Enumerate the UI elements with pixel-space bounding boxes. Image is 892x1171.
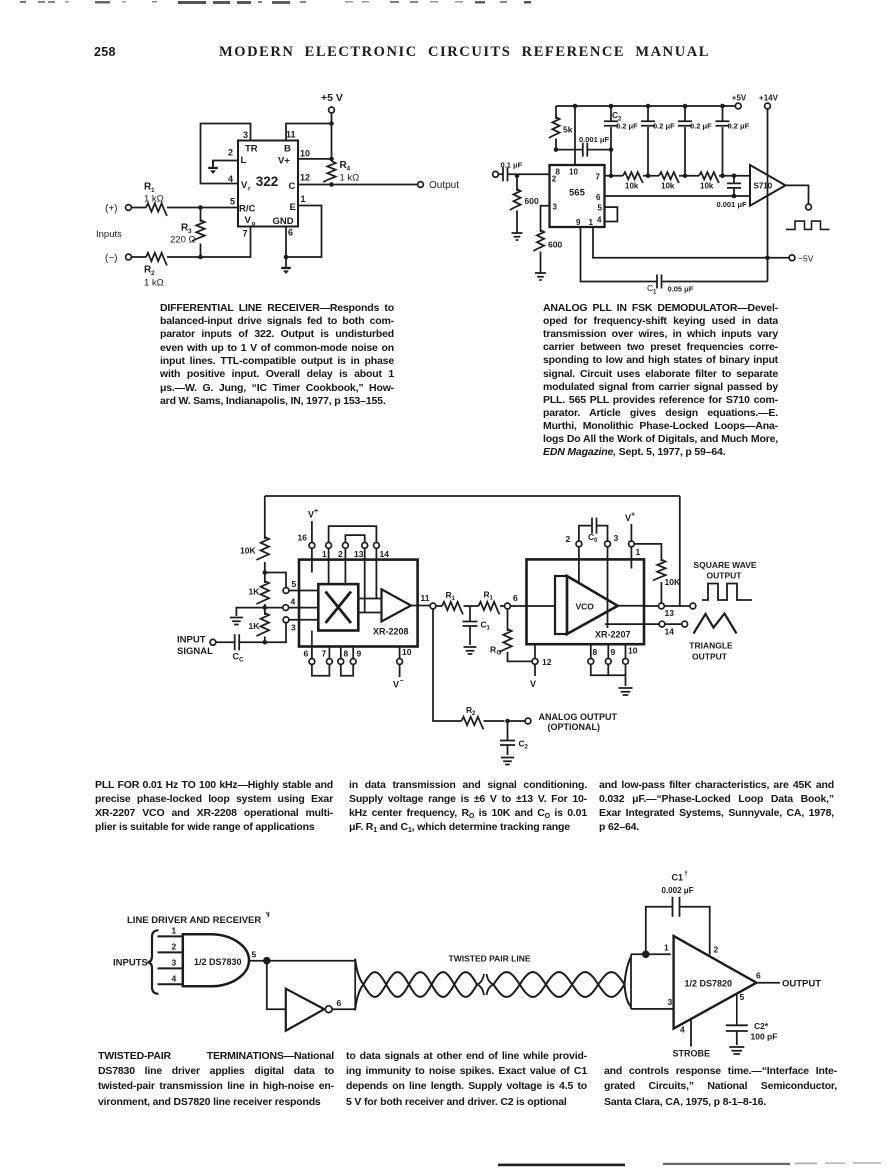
svg-text:2: 2 (172, 941, 177, 951)
svg-text:(OPTIONAL): (OPTIONAL) (548, 722, 601, 732)
svg-text:INPUT: INPUT (177, 635, 206, 646)
svg-text:+5V: +5V (732, 94, 747, 103)
svg-text:0.001 μF: 0.001 μF (717, 200, 747, 209)
svg-text:+14V: +14V (759, 94, 779, 103)
svg-text:8: 8 (344, 649, 349, 659)
svg-text:2: 2 (151, 270, 155, 277)
svg-text:3: 3 (614, 533, 619, 543)
svg-text:S710: S710 (754, 182, 773, 191)
svg-text:STROBE: STROBE (673, 1049, 711, 1059)
svg-text:10: 10 (628, 646, 638, 656)
svg-text:16: 16 (298, 533, 308, 543)
svg-text:1: 1 (653, 290, 657, 296)
svg-text:TR: TR (245, 144, 258, 155)
svg-text:0.2 μF: 0.2 μF (728, 122, 750, 131)
svg-text:1: 1 (452, 596, 456, 602)
svg-text:10K: 10K (240, 546, 256, 556)
svg-text:C2*: C2* (754, 1021, 769, 1031)
svg-text:0.002 μF: 0.002 μF (662, 886, 694, 895)
svg-text:6: 6 (513, 593, 518, 603)
svg-text:2: 2 (552, 175, 557, 184)
svg-text:8: 8 (593, 647, 598, 657)
svg-text:SQUARE WAVE: SQUARE WAVE (693, 560, 756, 570)
svg-text:0.2 μF: 0.2 μF (616, 122, 638, 131)
svg-text:INPUTS: INPUTS (113, 958, 148, 969)
svg-text:V: V (530, 679, 536, 689)
svg-text:322: 322 (256, 174, 279, 189)
svg-text:V: V (241, 180, 248, 191)
svg-text:XR-2208: XR-2208 (373, 627, 409, 637)
svg-text:565: 565 (569, 188, 586, 199)
svg-text:V+: V+ (278, 156, 290, 167)
svg-text:1 kΩ: 1 kΩ (144, 194, 164, 205)
svg-text:1K: 1K (249, 587, 261, 597)
svg-text:1: 1 (490, 596, 494, 602)
svg-text:2: 2 (472, 711, 476, 717)
svg-text:2: 2 (566, 534, 571, 544)
svg-text:2: 2 (714, 945, 719, 955)
svg-text:1: 1 (172, 925, 177, 935)
svg-text:14: 14 (380, 549, 390, 559)
svg-text:10: 10 (402, 647, 412, 657)
svg-text:0.2 μF: 0.2 μF (653, 122, 675, 131)
svg-text:5: 5 (598, 204, 603, 213)
svg-text:6: 6 (756, 971, 761, 981)
svg-text:4: 4 (680, 1025, 685, 1035)
svg-text:†: † (684, 871, 688, 878)
svg-text:OUTPUT: OUTPUT (782, 979, 821, 990)
svg-text:10K: 10K (665, 577, 681, 587)
svg-text:0.05 μF: 0.05 μF (668, 285, 694, 294)
svg-text:13: 13 (354, 549, 364, 559)
svg-text:TWISTED PAIR LINE: TWISTED PAIR LINE (449, 954, 531, 964)
svg-text:−: − (400, 678, 404, 685)
svg-text:1: 1 (301, 194, 306, 204)
svg-text:1/2 DS7830: 1/2 DS7830 (194, 957, 242, 967)
svg-text:12: 12 (542, 657, 552, 667)
svg-text:6: 6 (596, 193, 601, 202)
svg-text:LINE DRIVER AND RECEIVER: LINE DRIVER AND RECEIVER (127, 915, 261, 926)
svg-text:10k: 10k (700, 182, 714, 191)
svg-text:1K: 1K (249, 621, 261, 631)
svg-text:SIGNAL: SIGNAL (177, 646, 213, 657)
svg-text:6: 6 (337, 998, 342, 1008)
svg-text:4: 4 (172, 973, 177, 983)
svg-text:0: 0 (594, 538, 598, 544)
svg-text:(−): (−) (105, 253, 118, 264)
svg-text:10k: 10k (661, 182, 675, 191)
svg-text:3: 3 (172, 957, 177, 967)
svg-text:3: 3 (553, 203, 558, 212)
svg-text:r: r (248, 186, 251, 193)
svg-text:V: V (393, 680, 399, 690)
svg-text:9: 9 (576, 218, 581, 227)
svg-text:0.001 μF: 0.001 μF (579, 135, 609, 144)
svg-text:7: 7 (596, 173, 601, 182)
svg-text:4: 4 (347, 166, 351, 173)
svg-text:14: 14 (665, 627, 675, 637)
svg-text:ANALOG OUTPUT: ANALOG OUTPUT (539, 712, 618, 722)
svg-text:VCO: VCO (576, 602, 595, 612)
svg-text:o: o (252, 221, 256, 228)
svg-text:2: 2 (338, 549, 343, 559)
svg-text:O: O (497, 650, 502, 657)
svg-text:E: E (290, 202, 296, 213)
svg-text:1: 1 (636, 547, 641, 557)
svg-text:0.2 μF: 0.2 μF (690, 122, 712, 131)
svg-text:10: 10 (300, 149, 310, 159)
svg-text:2: 2 (525, 745, 529, 751)
svg-text:(+): (+) (105, 204, 118, 215)
svg-text:Output: Output (429, 180, 459, 191)
svg-text:1 kΩ: 1 kΩ (340, 173, 360, 184)
svg-text:7: 7 (243, 229, 248, 239)
svg-text:600: 600 (548, 240, 562, 250)
svg-text:1: 1 (664, 943, 669, 953)
svg-text:+: + (314, 508, 318, 515)
svg-text:C: C (289, 181, 296, 192)
svg-text:220 Ω: 220 Ω (170, 235, 196, 246)
svg-text:R/C: R/C (239, 204, 256, 215)
svg-text:11: 11 (286, 130, 296, 140)
svg-text:4: 4 (597, 216, 602, 225)
svg-text:OUTPUT: OUTPUT (707, 571, 743, 581)
svg-text:OUTPUT: OUTPUT (692, 652, 728, 662)
svg-text:R: R (490, 645, 496, 655)
svg-text:C1: C1 (672, 873, 684, 883)
svg-text:2: 2 (228, 148, 233, 158)
svg-text:XR-2207: XR-2207 (595, 630, 631, 640)
svg-text:12: 12 (300, 173, 310, 183)
svg-text:V: V (245, 215, 252, 226)
svg-text:10: 10 (569, 168, 578, 177)
svg-text:TRIANGLE: TRIANGLE (689, 641, 733, 651)
svg-text:1: 1 (322, 549, 327, 559)
svg-text:10k: 10k (625, 182, 639, 191)
svg-text:4: 4 (228, 174, 233, 184)
svg-text:1: 1 (589, 218, 594, 227)
svg-text:9: 9 (357, 649, 362, 659)
svg-text:6: 6 (304, 649, 309, 659)
svg-text:−5V: −5V (798, 253, 814, 263)
svg-text:13: 13 (665, 608, 675, 618)
svg-text:1 kΩ: 1 kΩ (144, 278, 164, 289)
svg-text:L: L (241, 155, 247, 166)
svg-text:3: 3 (243, 130, 248, 140)
svg-text:Inputs: Inputs (96, 229, 122, 240)
svg-text:1: 1 (487, 626, 491, 632)
svg-text:+5 V: +5 V (321, 92, 343, 104)
svg-text:5: 5 (230, 197, 235, 207)
svg-text:GND: GND (273, 216, 294, 227)
svg-text:1/2 DS7820: 1/2 DS7820 (685, 979, 733, 989)
svg-text:9: 9 (611, 647, 616, 657)
svg-text:C: C (239, 657, 244, 664)
svg-text:4: 4 (291, 597, 296, 607)
svg-text:+: + (631, 512, 635, 519)
svg-text:3: 3 (668, 997, 673, 1007)
svg-text:5k: 5k (563, 125, 573, 135)
svg-text:6: 6 (288, 228, 293, 238)
svg-text:7: 7 (322, 649, 327, 659)
svg-text:5: 5 (740, 992, 745, 1002)
svg-text:B: B (284, 144, 291, 155)
svg-text:0.1 μF: 0.1 μF (501, 161, 523, 170)
svg-text:3: 3 (291, 623, 296, 633)
svg-text:5: 5 (292, 579, 297, 589)
svg-text:600: 600 (525, 196, 539, 206)
svg-text:100 pF: 100 pF (751, 1032, 778, 1042)
svg-text:11: 11 (421, 593, 430, 603)
svg-text:5: 5 (252, 950, 257, 960)
